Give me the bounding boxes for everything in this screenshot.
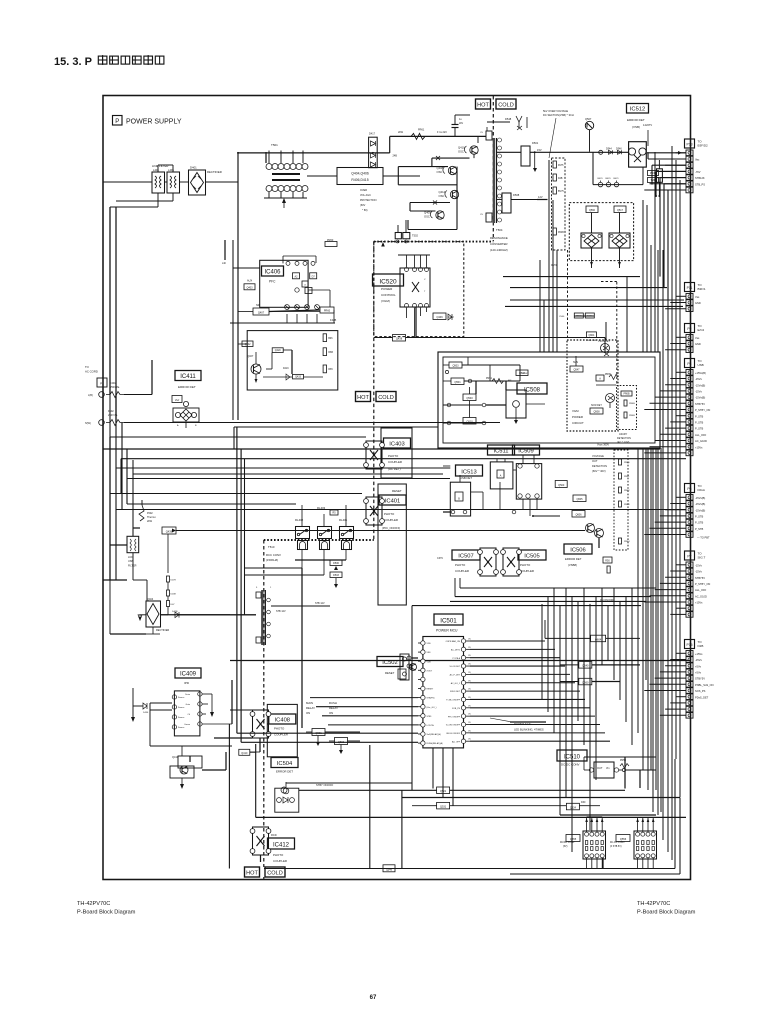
svg-text:B421: B421 xyxy=(614,178,620,180)
svg-text:IC513: IC513 xyxy=(461,469,476,475)
svg-text:(150KHZ): (150KHZ) xyxy=(266,558,278,562)
svg-text:E/C2: E/C2 xyxy=(698,328,705,332)
svg-text:D4B: D4B xyxy=(558,178,563,180)
svg-text:B3F/1: B3F/1 xyxy=(698,287,706,291)
svg-text:ASURY: ASURY xyxy=(619,433,628,436)
svg-text:P-Board Block Diagram: P-Board Block Diagram xyxy=(77,910,136,916)
svg-text:IPD: IPD xyxy=(184,681,190,685)
svg-text:24B: 24B xyxy=(393,155,398,158)
svg-text:— TO PBT: — TO PBT xyxy=(697,536,710,540)
svg-text:COLD: COLD xyxy=(267,871,283,877)
svg-text:IC501: IC501 xyxy=(440,617,457,624)
svg-text:P_STBY_ON: P_STBY_ON xyxy=(695,408,710,412)
svg-text:OUT: OUT xyxy=(592,459,598,463)
svg-text:D417: D417 xyxy=(369,133,376,136)
svg-text:V-LON ON/OFF: V-LON ON/OFF xyxy=(446,725,461,727)
svg-text:P-Board Block Diagram: P-Board Block Diagram xyxy=(637,910,696,916)
svg-text:Q604: Q604 xyxy=(588,334,595,337)
svg-text:IC512: IC512 xyxy=(630,106,645,112)
svg-text:-15Vs(B): -15Vs(B) xyxy=(695,508,705,512)
svg-text:Q403: Q403 xyxy=(246,286,253,289)
svg-text:LON TA: LON TA xyxy=(427,724,435,727)
svg-text:15V: 15V xyxy=(537,148,542,152)
svg-text:Source: Source xyxy=(178,717,185,719)
svg-text:PHOTO: PHOTO xyxy=(384,512,395,516)
svg-text:XOB_PS: XOB_PS xyxy=(452,708,461,710)
svg-text:D544: D544 xyxy=(606,148,612,151)
svg-text:Q410: Q410 xyxy=(458,146,465,150)
svg-text:2kW: 2kW xyxy=(147,520,153,523)
svg-text:PFC: PFC xyxy=(269,280,276,284)
svg-text:STB 12V: STB 12V xyxy=(276,610,286,613)
svg-text:COUPLER: COUPLER xyxy=(273,859,287,863)
svg-text:IC403: IC403 xyxy=(389,441,404,447)
svg-text:+5Vs: +5Vs xyxy=(695,664,702,668)
svg-text:D508: D508 xyxy=(513,193,520,197)
svg-text:2kV: 2kV xyxy=(459,122,464,125)
svg-text:CIRCUIT: CIRCUIT xyxy=(572,421,584,425)
svg-text:SXUS DET: SXUS DET xyxy=(450,691,461,693)
svg-text:ALL OFF: ALL OFF xyxy=(452,740,461,743)
svg-text:COUPLER: COUPLER xyxy=(455,569,469,573)
svg-text:+5Vs: +5Vs xyxy=(695,671,702,675)
svg-text:VDD: VDD xyxy=(427,643,432,645)
svg-text:(60V: (60V xyxy=(360,204,366,207)
svg-text:P4: P4 xyxy=(687,362,691,366)
svg-text:Q501: Q501 xyxy=(454,380,461,384)
svg-text:P11: P11 xyxy=(687,286,693,290)
svg-text:DETECTION: DETECTION xyxy=(617,437,631,440)
svg-text:VSUS DET: VSUS DET xyxy=(598,340,610,343)
svg-text:Drain: Drain xyxy=(185,694,190,696)
svg-text:STB 12V: STB 12V xyxy=(315,602,325,605)
svg-text:PR61: PR61 xyxy=(624,476,630,478)
svg-text:VDB: VDB xyxy=(427,661,432,663)
svg-text:PR60: PR60 xyxy=(324,310,331,313)
svg-text:AC_DET1: AC_DET1 xyxy=(451,648,461,651)
svg-text:Q606: Q606 xyxy=(575,514,582,517)
svg-text:Q407: Q407 xyxy=(258,311,265,315)
svg-text:+15Vs: +15Vs xyxy=(695,445,703,449)
svg-text:DC-DC CONV: DC-DC CONV xyxy=(561,763,580,767)
svg-text:-15Vs: -15Vs xyxy=(695,390,702,394)
svg-text:Q531: Q531 xyxy=(440,806,447,809)
svg-text:VSS: VSS xyxy=(427,652,432,654)
svg-text:Q446: Q446 xyxy=(436,315,443,319)
svg-text:(5V): (5V) xyxy=(563,846,568,848)
svg-text:RL403: RL403 xyxy=(317,506,326,510)
svg-text:AC CORD: AC CORD xyxy=(85,370,98,374)
svg-text:Q407: Q407 xyxy=(247,354,254,358)
svg-text:RESET: RESET xyxy=(385,671,395,675)
svg-text:OSPS BAR_ON: OSPS BAR_ON xyxy=(446,640,461,643)
svg-text:PR6B: PR6B xyxy=(629,415,635,417)
svg-text:V-LON DET: V-LON DET xyxy=(449,666,460,668)
svg-text:SOS_PS: SOS_PS xyxy=(695,689,706,693)
svg-text:ALL_OFF: ALL_OFF xyxy=(695,433,707,437)
svg-text:L(B): L(B) xyxy=(88,394,93,397)
svg-text:Q547: Q547 xyxy=(573,369,580,372)
svg-text:Vss: Vss xyxy=(695,295,700,299)
svg-text:VOLTAGE: VOLTAGE xyxy=(592,454,604,458)
svg-text:RUSH: RUSH xyxy=(329,701,337,705)
svg-text:IC411: IC411 xyxy=(180,374,196,380)
svg-text:-15Vs(B): -15Vs(B) xyxy=(695,383,705,387)
svg-text:STBY5V: STBY5V xyxy=(695,677,705,681)
svg-text:SoS(RELAY)(H): SoS(RELAY)(H) xyxy=(427,733,442,736)
svg-text:RCC CONV: RCC CONV xyxy=(266,553,281,557)
svg-text:P_STB: P_STB xyxy=(695,427,703,431)
svg-text:HOT: HOT xyxy=(357,395,369,401)
svg-text:RECTIFIER: RECTIFIER xyxy=(207,170,222,174)
svg-text:PR61: PR61 xyxy=(486,377,493,380)
svg-text:PR50: PR50 xyxy=(620,759,627,762)
svg-text:Q540: Q540 xyxy=(466,396,473,400)
svg-text:ERROR DET: ERROR DET xyxy=(565,557,582,561)
svg-text:TH-42PV70C: TH-42PV70C xyxy=(77,901,110,907)
svg-text:AC_P_DET: AC_P_DET xyxy=(450,674,461,677)
svg-text:F502: F502 xyxy=(147,512,153,515)
svg-text:-76V: -76V xyxy=(695,170,701,174)
svg-text:Vac: Vac xyxy=(695,158,700,162)
svg-text:P7: P7 xyxy=(687,555,691,559)
svg-text:HOT: HOT xyxy=(477,103,489,109)
svg-text:PHOTO: PHOTO xyxy=(520,563,531,567)
svg-text:(VSB8): (VSB8) xyxy=(568,563,577,567)
svg-text:AC_GO_1: AC_GO_1 xyxy=(451,682,461,685)
svg-text:PR61: PR61 xyxy=(418,129,425,132)
svg-text:IC408: IC408 xyxy=(275,717,290,723)
svg-text:Q410: Q410 xyxy=(241,752,248,755)
svg-text:RESET: RESET xyxy=(392,489,402,493)
svg-text:P_STB: P_STB xyxy=(695,421,703,425)
svg-text:IC505: IC505 xyxy=(524,553,539,559)
svg-text:T504: T504 xyxy=(496,228,503,232)
svg-text:Q517: Q517 xyxy=(617,209,624,212)
svg-text:D401: D401 xyxy=(190,166,197,170)
svg-text:Source: Source xyxy=(178,707,185,709)
svg-text:PR63: PR63 xyxy=(624,504,630,506)
svg-text:Vss: Vss xyxy=(695,336,700,340)
svg-text:IC406: IC406 xyxy=(264,269,281,275)
svg-text:(AC ^ 1.6V): (AC ^ 1.6V) xyxy=(617,441,629,444)
svg-text:ERROR DET: ERROR DET xyxy=(276,770,293,774)
svg-text:D2B: D2B xyxy=(698,644,704,648)
svg-text:B06: B06 xyxy=(328,338,333,340)
svg-text:T501: T501 xyxy=(271,143,278,147)
svg-text:IC520: IC520 xyxy=(379,278,397,285)
svg-text:D436: D436 xyxy=(143,712,149,714)
svg-text:F 1s 2kV: F 1s 2kV xyxy=(437,131,447,134)
svg-text:T502: T502 xyxy=(412,234,418,238)
svg-text:CONVERTER: CONVERTER xyxy=(490,242,508,246)
svg-text:ERROR DET: ERROR DET xyxy=(178,385,196,389)
svg-text:AC_G10D: AC_G10D xyxy=(695,594,707,598)
svg-text:OSC: OSC xyxy=(458,150,464,154)
svg-text:(PFC_ON/OFF): (PFC_ON/OFF) xyxy=(382,526,400,530)
svg-text:Q500: Q500 xyxy=(558,484,565,487)
svg-text:D438: D438 xyxy=(171,594,177,596)
svg-text:-15Vs: -15Vs xyxy=(695,570,702,574)
svg-text:T510: T510 xyxy=(268,545,275,549)
svg-text:IC511: IC511 xyxy=(493,448,508,454)
svg-text:CONTROL: CONTROL xyxy=(381,293,396,297)
svg-text:Q640: Q640 xyxy=(582,664,589,668)
svg-text:(60V ^ 40V): (60V ^ 40V) xyxy=(592,469,606,473)
svg-text:AC_G10D: AC_G10D xyxy=(695,439,707,443)
svg-text:Source: Source xyxy=(178,727,185,729)
svg-text:P_STB: P_STB xyxy=(695,414,703,418)
svg-text:F401: F401 xyxy=(110,382,116,385)
svg-text:5kV OVER VOLTAGE: 5kV OVER VOLTAGE xyxy=(543,109,568,113)
svg-text:P_STB: P_STB xyxy=(695,515,703,519)
svg-text:BV75: BV75 xyxy=(558,191,564,193)
svg-text:RECTIFIER: RECTIFIER xyxy=(156,629,169,632)
svg-text:67: 67 xyxy=(370,995,377,1001)
svg-text:(Vac_GO_): (Vac_GO_) xyxy=(427,707,437,709)
svg-text:ERROR DET: ERROR DET xyxy=(627,118,645,122)
svg-text:DC-DC CONV: DC-DC CONV xyxy=(610,842,625,844)
svg-text:-15Vs(B): -15Vs(B) xyxy=(695,502,705,506)
svg-text:Q560: Q560 xyxy=(589,209,596,212)
svg-text:DETECTION: DETECTION xyxy=(592,464,607,468)
svg-text:PA75: PA75 xyxy=(558,164,564,167)
svg-text:Q605: Q605 xyxy=(576,498,583,501)
svg-text:D506: D506 xyxy=(333,562,339,565)
svg-text:COUPLER: COUPLER xyxy=(388,460,402,464)
svg-text:SIG.T: SIG.T xyxy=(698,556,706,560)
svg-text:USB DET: USB DET xyxy=(460,476,472,480)
svg-text:POWER: POWER xyxy=(572,415,583,419)
svg-text:Q555: Q555 xyxy=(570,837,577,841)
svg-text:Thermo: Thermo xyxy=(147,516,156,519)
svg-text:OVER: OVER xyxy=(360,189,367,192)
svg-text:IC507: IC507 xyxy=(458,553,473,559)
svg-text:-15Vs(B): -15Vs(B) xyxy=(695,396,705,400)
svg-text:D503: D503 xyxy=(333,574,339,577)
svg-text:Q402: Q402 xyxy=(245,343,252,346)
svg-text:Q436: Q436 xyxy=(166,530,173,534)
svg-text:D546: D546 xyxy=(616,148,622,151)
svg-text:POWER: POWER xyxy=(381,287,393,291)
svg-text:HOT: HOT xyxy=(246,871,258,877)
svg-text:+15Vs: +15Vs xyxy=(695,652,703,656)
svg-text:STB_PS: STB_PS xyxy=(695,182,705,186)
svg-text:COUPLER: COUPLER xyxy=(520,569,534,573)
svg-text:D501: D501 xyxy=(532,141,539,145)
svg-text:NR: NR xyxy=(256,304,260,307)
svg-text:12V: 12V xyxy=(538,195,543,199)
svg-text:TH-42PV70C: TH-42PV70C xyxy=(637,901,670,907)
svg-text:D478: D478 xyxy=(171,580,177,582)
svg-text:B670: B670 xyxy=(598,178,604,180)
svg-text:R6l: R6l xyxy=(508,380,512,382)
svg-text:MAIN: MAIN xyxy=(306,701,313,705)
svg-text:DIGA: DIGA xyxy=(698,488,705,492)
svg-text:PHOTO: PHOTO xyxy=(388,454,399,458)
svg-text:D54B: D54B xyxy=(558,232,564,234)
svg-text:RESET: RESET xyxy=(427,689,434,691)
svg-text:FILTER: FILTER xyxy=(128,565,137,568)
svg-text:Vref: Vref xyxy=(175,399,180,402)
svg-text:Source: Source xyxy=(178,697,185,699)
svg-text:B670: B670 xyxy=(606,178,612,180)
svg-text:GND: GND xyxy=(695,301,701,305)
svg-text:OSC: OSC xyxy=(424,215,430,219)
svg-text:Vsus 360V: Vsus 360V xyxy=(597,444,609,447)
svg-text:OSC: OSC xyxy=(439,194,445,198)
svg-text:DC/DC CONV: DC/DC CONV xyxy=(560,842,575,844)
svg-text:Q660: Q660 xyxy=(582,680,589,684)
svg-text:D579: D579 xyxy=(551,265,557,267)
svg-text:AUX: AUX xyxy=(247,280,252,283)
svg-text:Q524: Q524 xyxy=(570,806,577,809)
svg-text:B3F/D2: B3F/D2 xyxy=(698,144,709,148)
svg-text:PR69: PR69 xyxy=(576,316,582,318)
svg-text:RELAY: RELAY xyxy=(306,706,315,710)
svg-text:LED BLINKING, 4TIMES: LED BLINKING, 4TIMES xyxy=(514,728,544,732)
svg-text:Q412: Q412 xyxy=(439,190,446,194)
svg-text:D30: D30 xyxy=(581,801,586,804)
svg-text:F_SB_ON/OFF: F_SB_ON/OFF xyxy=(446,700,460,702)
svg-text:Q503: Q503 xyxy=(452,365,459,368)
svg-text:DC SECTION(VSB) ^ 3CH: DC SECTION(VSB) ^ 3CH xyxy=(543,113,574,117)
svg-text:(F STB 5V): (F STB 5V) xyxy=(610,846,622,848)
svg-text:POWER MCU: POWER MCU xyxy=(436,629,458,633)
svg-text:STB1: STB1 xyxy=(427,716,433,718)
svg-text:IC504: IC504 xyxy=(277,761,293,767)
svg-text:D419: D419 xyxy=(283,368,289,370)
svg-text:P_STBY_ON: P_STBY_ON xyxy=(695,582,710,586)
svg-text:-15Vs: -15Vs xyxy=(695,658,702,662)
svg-text:IC412: IC412 xyxy=(273,842,290,848)
svg-text:14o5TV: 14o5TV xyxy=(643,123,652,127)
svg-text:Q438: Q438 xyxy=(396,337,403,341)
svg-text:USB: USB xyxy=(698,363,704,367)
svg-text:COLD: COLD xyxy=(498,103,514,109)
svg-text:PROTECTION: PROTECTION xyxy=(360,199,377,202)
svg-text:Q420: Q420 xyxy=(275,349,282,352)
svg-text:VGM: VGM xyxy=(572,409,579,413)
svg-text:+15Vs: +15Vs xyxy=(695,601,703,605)
svg-text:GND: GND xyxy=(695,342,701,346)
svg-text:P_STB: P_STB xyxy=(695,527,703,531)
svg-text:-15Vs: -15Vs xyxy=(695,563,702,567)
svg-text:PR62: PR62 xyxy=(624,490,630,492)
svg-text:Q547: Q547 xyxy=(519,372,526,375)
svg-text:D548: D548 xyxy=(505,117,512,121)
svg-text:P13: P13 xyxy=(686,143,692,147)
svg-text:PHOTO: PHOTO xyxy=(274,727,285,731)
svg-text:R406,D415: R406,D415 xyxy=(351,178,368,182)
svg-text:STBY5V: STBY5V xyxy=(695,402,705,406)
svg-text:IC401: IC401 xyxy=(385,498,400,504)
svg-text:RCD: RCD xyxy=(271,833,277,837)
svg-text:IC509: IC509 xyxy=(518,448,533,454)
svg-text:OSC: OSC xyxy=(437,170,443,174)
svg-text:PR6B: PR6B xyxy=(629,403,635,405)
svg-text:STB(PS): STB(PS) xyxy=(427,698,435,700)
svg-text:R50: R50 xyxy=(605,560,610,563)
svg-text:STB12K: STB12K xyxy=(695,176,705,180)
svg-text:XOUT: XOUT xyxy=(427,670,433,672)
svg-text:PHOTO: PHOTO xyxy=(273,853,284,857)
svg-text:POWER SUPPLY: POWER SUPPLY xyxy=(126,119,182,126)
svg-text:D520: D520 xyxy=(587,316,593,318)
svg-text:F402: F402 xyxy=(108,410,114,413)
svg-text:250V 8a: 250V 8a xyxy=(110,386,120,389)
svg-text:(AC DET): (AC DET) xyxy=(388,467,401,471)
svg-text:ON: ON xyxy=(329,711,333,715)
svg-text:P STB A: P STB A xyxy=(452,657,460,660)
svg-text:(120-140KHZ): (120-140KHZ) xyxy=(490,248,508,252)
svg-text:Q556: Q556 xyxy=(620,837,627,841)
svg-text:N(W): N(W) xyxy=(85,422,91,425)
svg-text:ALL_OFF: ALL_OFF xyxy=(695,588,707,592)
svg-text:-15Vs: -15Vs xyxy=(695,377,702,381)
svg-text:Q507: Q507 xyxy=(585,117,592,121)
svg-text:Comm: Comm xyxy=(184,724,190,726)
svg-text:Q521: Q521 xyxy=(440,790,447,793)
svg-text:SOW DET: SOW DET xyxy=(591,405,602,407)
svg-text:IC502: IC502 xyxy=(382,660,397,666)
svg-text:-15Vs(B): -15Vs(B) xyxy=(695,496,705,500)
svg-text:R6B: R6B xyxy=(328,352,333,354)
svg-text:(VSB): (VSB) xyxy=(632,125,640,129)
svg-text:P6: P6 xyxy=(687,487,691,491)
svg-text:COLD: COLD xyxy=(378,395,394,401)
svg-text:Q404,Q406: Q404,Q406 xyxy=(351,172,369,176)
svg-text:Q508: Q508 xyxy=(593,411,600,414)
svg-text:P15: P15 xyxy=(686,643,692,647)
svg-text:PNBL_SoS_ON: PNBL_SoS_ON xyxy=(695,683,714,687)
svg-text:IC506: IC506 xyxy=(570,547,585,553)
svg-text:RESONANCE: RESONANCE xyxy=(490,236,508,240)
svg-text:OUT: OUT xyxy=(597,766,603,770)
svg-text:PDsS_DET: PDsS_DET xyxy=(695,695,709,699)
svg-text:PFC ON/OFF: PFC ON/OFF xyxy=(448,716,461,718)
svg-text:PHOTO: PHOTO xyxy=(455,563,466,567)
svg-text:P_STB: P_STB xyxy=(695,521,703,525)
svg-text:P1: P1 xyxy=(100,382,104,386)
svg-text:PR64: PR64 xyxy=(624,541,630,543)
svg-text:+15Vs(B): +15Vs(B) xyxy=(695,371,706,375)
svg-text:STBY5V: STBY5V xyxy=(695,576,705,580)
svg-text:PR6B: PR6B xyxy=(623,394,629,396)
svg-text:(VGM): (VGM) xyxy=(381,299,390,303)
svg-text:PR60: PR60 xyxy=(624,462,630,464)
svg-text:OB LB ON/OFF: OB LB ON/OFF xyxy=(446,733,461,735)
svg-text:P2: P2 xyxy=(687,327,691,331)
svg-text:Q433: Q433 xyxy=(295,376,302,379)
svg-text:R65: R65 xyxy=(328,369,333,371)
svg-text:ON: ON xyxy=(306,711,310,715)
svg-text:2kW: 2kW xyxy=(398,131,404,134)
svg-text:^ 80): ^ 80) xyxy=(362,209,368,212)
svg-text:COUPLER: COUPLER xyxy=(384,518,398,522)
svg-text:IC409: IC409 xyxy=(180,671,197,677)
svg-text:C540: C540 xyxy=(559,316,565,318)
svg-text:STBY ON/OFF: STBY ON/OFF xyxy=(316,783,334,787)
svg-text:VOL AGC: VOL AGC xyxy=(360,194,371,197)
svg-text:P: P xyxy=(115,119,119,125)
svg-text:LCD: LCD xyxy=(128,556,133,559)
svg-text:RUSH(RELAY)(A): RUSH(RELAY)(A) xyxy=(427,742,443,745)
svg-text:C379: C379 xyxy=(437,557,443,560)
svg-text:15. 3. P: 15. 3. P xyxy=(54,56,92,68)
svg-text:F42B: F42B xyxy=(330,318,336,322)
